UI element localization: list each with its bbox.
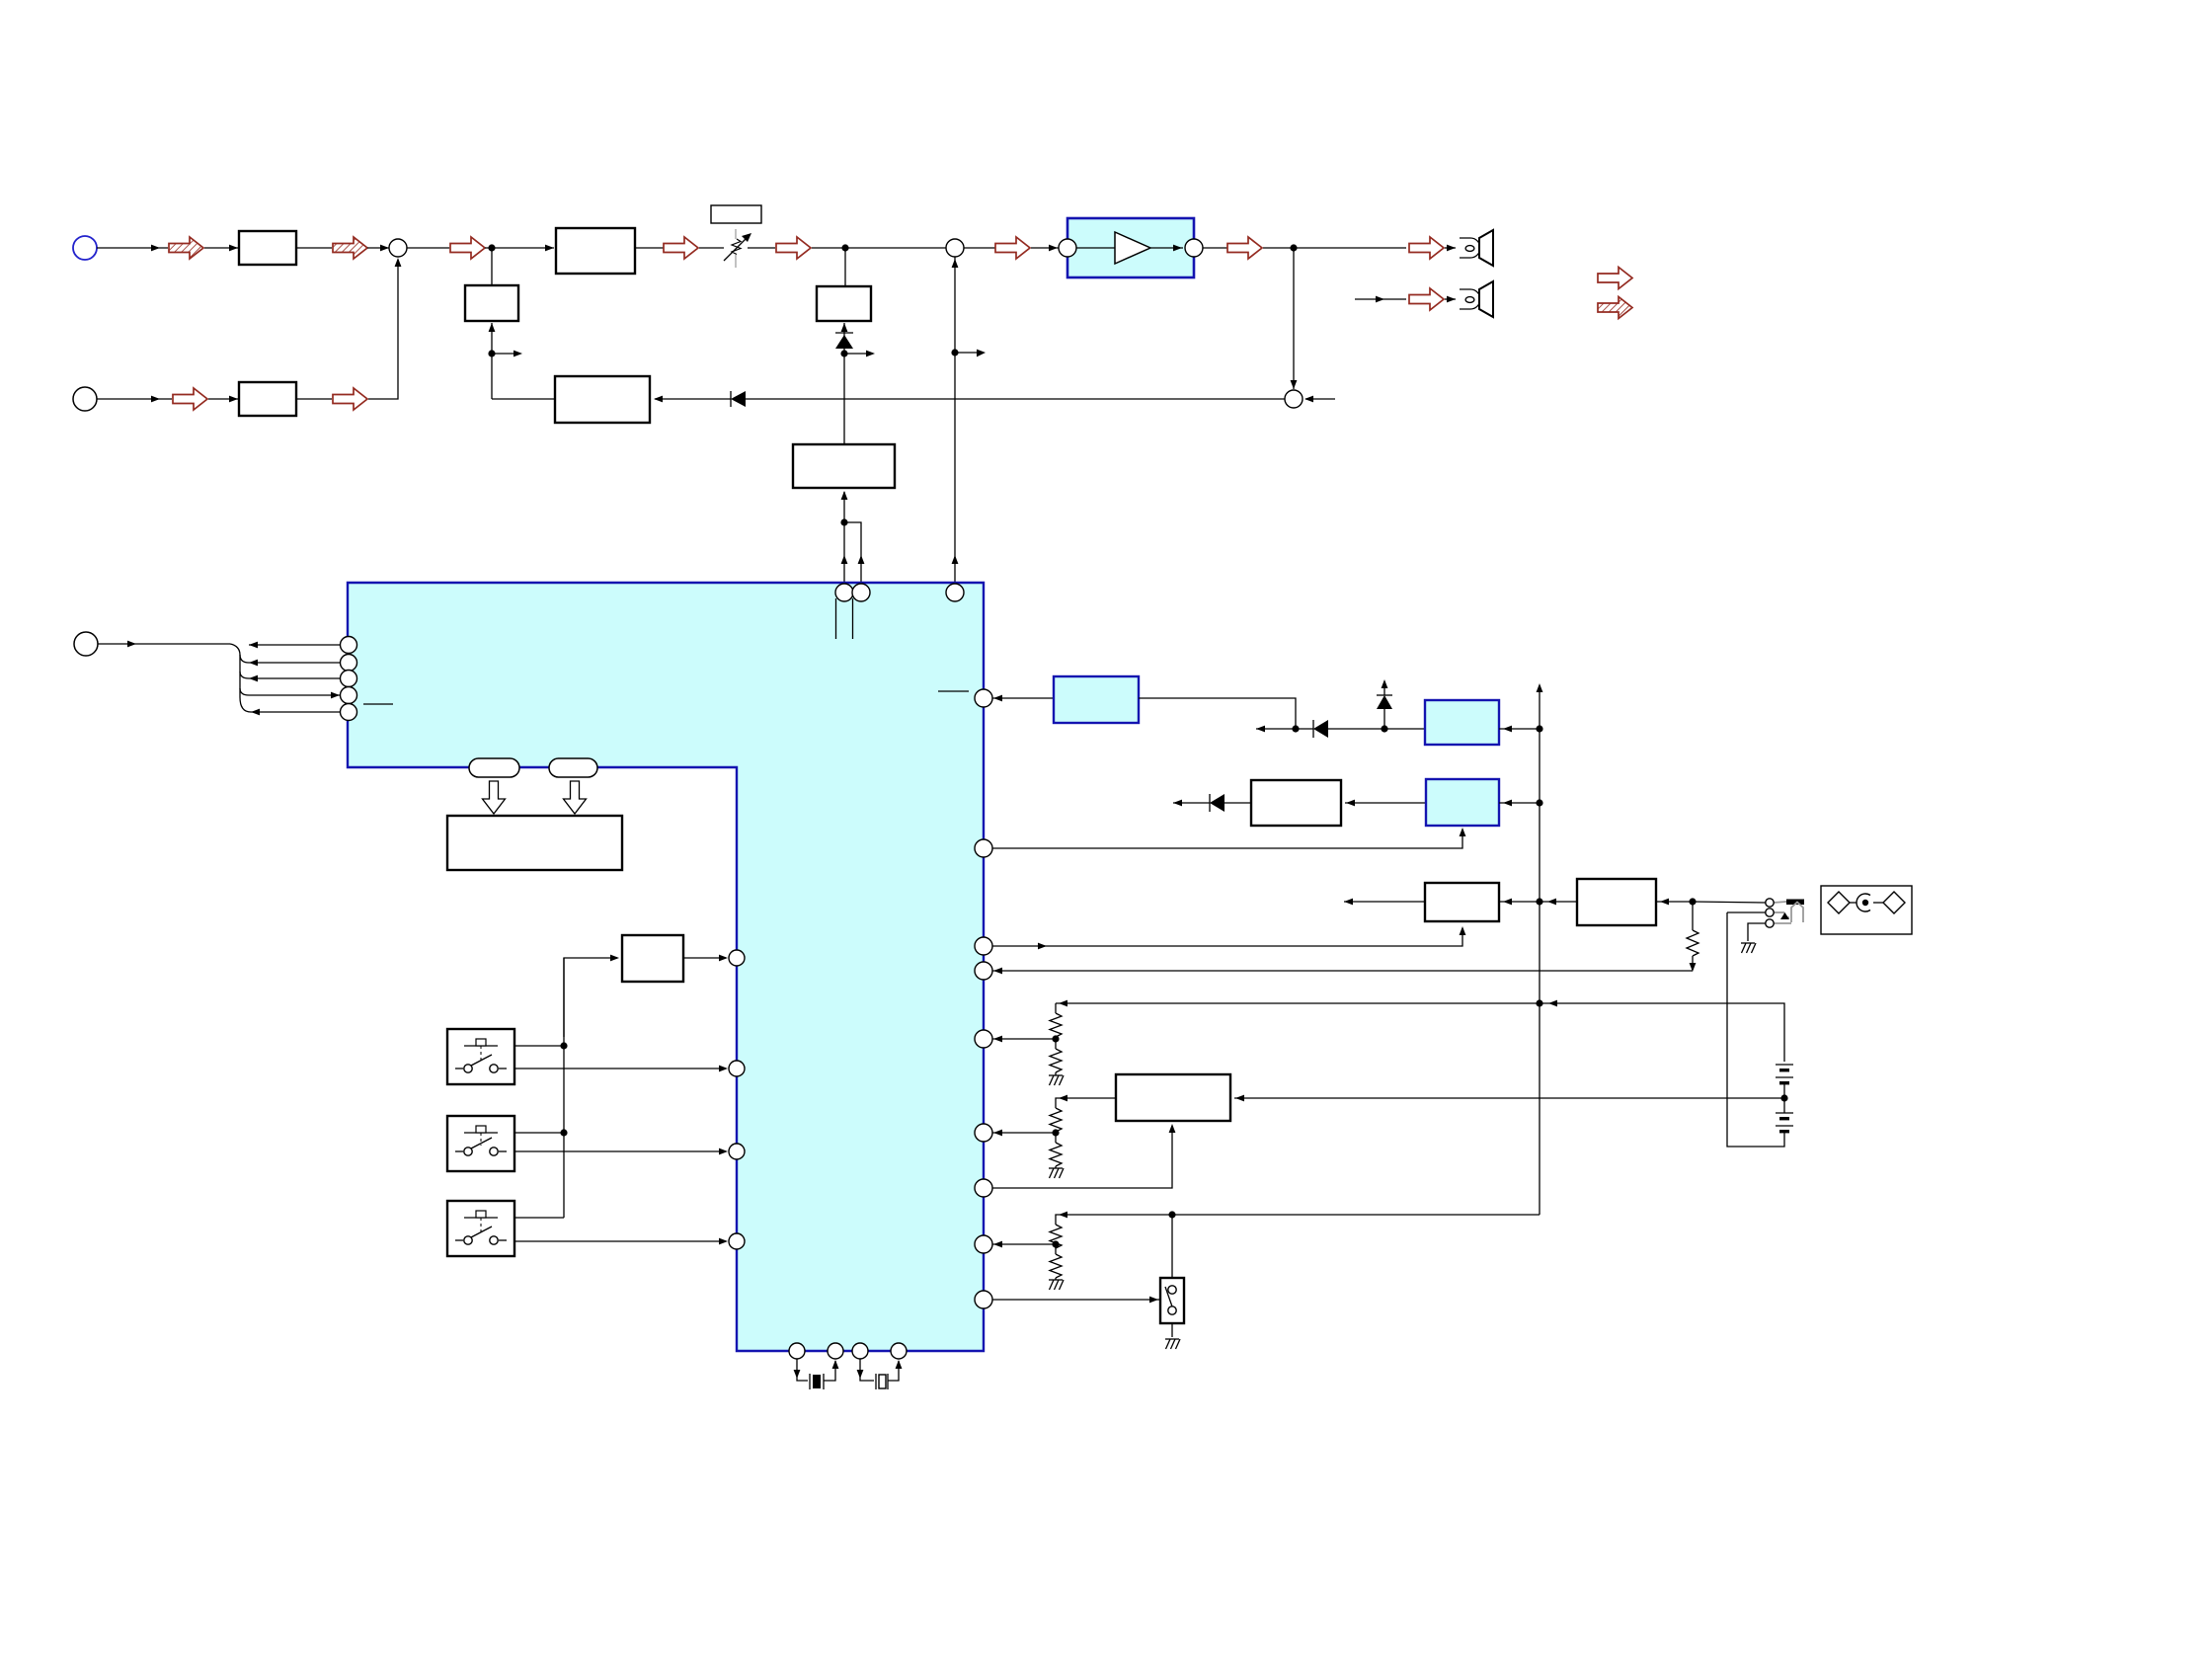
wire to speaker with junction [1263,244,1406,251]
block J: regulator (cyan) [1426,779,1499,826]
power amplifier block U1 [1067,218,1194,277]
block: input amp [239,231,296,265]
wire up into block D [489,323,496,399]
battery center tap into block N [1234,1094,1788,1101]
wire [699,247,724,249]
amp input pin [1059,239,1076,257]
wire [296,398,332,400]
IC U2: system control / DSP (L-shaped) [348,583,984,1351]
IC bottom pins [789,1343,907,1359]
internal stubs below top pins [836,598,853,639]
headphone feed line [1355,296,1406,303]
signal arrow [664,237,698,259]
key switch SW3 [447,1201,514,1256]
return wire to block C [492,398,555,400]
feedback node S3 [1285,248,1303,408]
low-batt net from bus [1056,1211,1540,1225]
diode D4 [1210,794,1251,812]
block: input amp R [239,382,296,416]
arrowheads up toward block B [841,555,959,564]
fan-out harness bus [230,644,251,712]
remote jack J3 [74,632,98,656]
IC left-column pins [729,950,745,1249]
DC jack J4 [1766,899,1804,927]
wire [748,247,775,249]
wire [964,247,995,249]
wire from jack node into block M [1656,899,1693,906]
switch bus vertical [563,958,565,1218]
connector oval 2 on IC bottom edge [549,758,597,777]
wire [635,247,664,249]
wire into block G [564,955,619,1037]
block F: display [447,816,622,870]
wire from supply net into block H [1139,698,1296,729]
block G: reset [622,935,683,982]
block H: regulator (cyan) [1054,676,1139,723]
legend: line signal arrow [1598,268,1632,289]
summing node S1 [389,239,407,257]
legend: hatched signal arrow [1598,297,1632,319]
input jack J1 (LINE IN L, blue) [73,236,97,260]
diode D2 (up) [835,333,853,349]
internal stub near left pin [363,703,393,705]
speaker SP2 [1460,281,1493,317]
wire from IC pin 9 into SW4 [992,1297,1160,1304]
resistor divider on pin 5 [992,1003,1064,1085]
supply net stub arrow [1256,725,1300,732]
SW2 bottom wire to IC pin [514,1148,728,1155]
SW1 bottom wire to IC pin [514,1066,728,1072]
block I: regulator (cyan) [1425,700,1499,745]
battery feed line [1056,1000,1784,1062]
resistor divider on pin 6 [992,1108,1064,1178]
wire from bus into block I [1499,726,1540,733]
wire from block H into pin 1 [992,695,1054,702]
block D: mute stage below row1 junction [465,248,518,321]
wire from bus into block L [1499,899,1540,906]
hollow arrow 1 down [483,781,506,814]
variable attenuator [724,229,751,268]
key switch SW1 [447,1029,514,1084]
wire from block J into block K [1345,800,1426,807]
block K: charge controller [1251,780,1341,826]
wire [407,247,449,249]
key switch SW2 [447,1116,514,1171]
wire [204,245,239,252]
SW3 bottom wire to IC pin [514,1238,728,1245]
power bus vertical [1536,683,1542,1215]
crystal X2 [857,1359,903,1389]
signal arrow (hatched) [333,237,367,259]
SW2 top wire to node [514,1129,568,1136]
wire from IC pin 2 up into block J [992,828,1465,848]
wire [367,245,389,252]
signal arrow [333,388,367,410]
SW1 top wire to node [514,1042,568,1049]
wire [1445,296,1456,303]
battery B2 [1776,1098,1793,1133]
wire with junction to volume node [812,244,946,251]
IC top pins [835,584,964,601]
jack middle contact wire [1727,911,1766,913]
amp output pin [1185,239,1203,257]
row 2: stub arrow [1173,800,1210,807]
connector oval 1 on IC bottom edge [469,758,519,777]
wire from IC pin 3 up into block L [992,926,1465,949]
node circle S2 [946,239,964,257]
jack ground [1741,923,1766,953]
block: EQ stage [556,228,635,274]
bus lines to IC left pins [249,642,340,716]
diode D1 [731,391,746,407]
signal arrow [1227,237,1262,259]
wire from bus into block J [1499,800,1540,807]
wire up into summing node S1 [368,258,401,399]
wire down to block B with junction [840,349,875,444]
wire up into block A [841,323,848,348]
wire with junction [485,244,554,251]
wire into block I [1384,728,1425,730]
node with branch arrow [488,350,522,356]
IC left pins [341,637,357,721]
wire from IC pin 7 up into block N [992,1124,1175,1188]
resistor R1 below jack node [1687,902,1698,972]
internal stub near right pin 1 [938,690,969,692]
wire with arrow into block C [654,396,731,403]
block A: AGC below row1 [817,248,871,321]
branch to second pin [840,518,861,593]
signal arrow [1409,288,1444,310]
wire with arrow [98,641,230,648]
block L: DC-DC [1425,883,1499,921]
jack node and wire [1689,898,1766,905]
wire [1445,245,1456,252]
battery negative return to jack [1727,912,1784,1147]
block B: power supply / detector [793,444,895,488]
zener diode Z1 to supply arrow [1377,679,1392,733]
signal arrow [995,237,1030,259]
vertical from node S2 down to IC with junction [951,257,986,593]
wire [97,396,172,403]
wire [97,245,168,252]
hollow arrow 2 down [564,781,587,814]
battery B1 [1776,1065,1793,1098]
small label box above attenuator [711,205,761,223]
wire [296,247,332,249]
SW3 top wire to node [514,1217,564,1219]
wire from block G to IC pin [683,955,728,962]
wire [208,396,239,403]
input jack J2 (LINE IN R) [73,387,97,411]
resistor divider on pin 8 [992,1225,1064,1290]
signal arrow [1409,237,1444,259]
wire from block M into bus [1540,899,1577,906]
signal arrow [173,388,207,410]
signal arrow (hatched) [169,237,203,259]
wire into IC pin 4 [992,968,1693,975]
signal arrow [450,237,485,259]
wire into amp [1031,245,1059,252]
return wire from S3 [746,398,1285,400]
block M: power switch [1577,879,1656,925]
polarity legend box [1821,886,1912,934]
crystal X1 [794,1359,839,1389]
row 3: block L output stub [1344,899,1425,906]
block N output to divider [1056,1095,1116,1108]
speaker SP1 [1460,230,1493,266]
block N: battery monitor [1116,1074,1230,1121]
wire up into block B [841,491,848,593]
diode D3 [1296,720,1384,738]
wire [1203,247,1227,249]
block C: feedback detector [555,376,650,423]
hold switch SW4 [1160,1215,1184,1349]
signal arrow [776,237,811,259]
IC right pins [975,689,992,1308]
stub arrow into S3 [1304,396,1335,403]
